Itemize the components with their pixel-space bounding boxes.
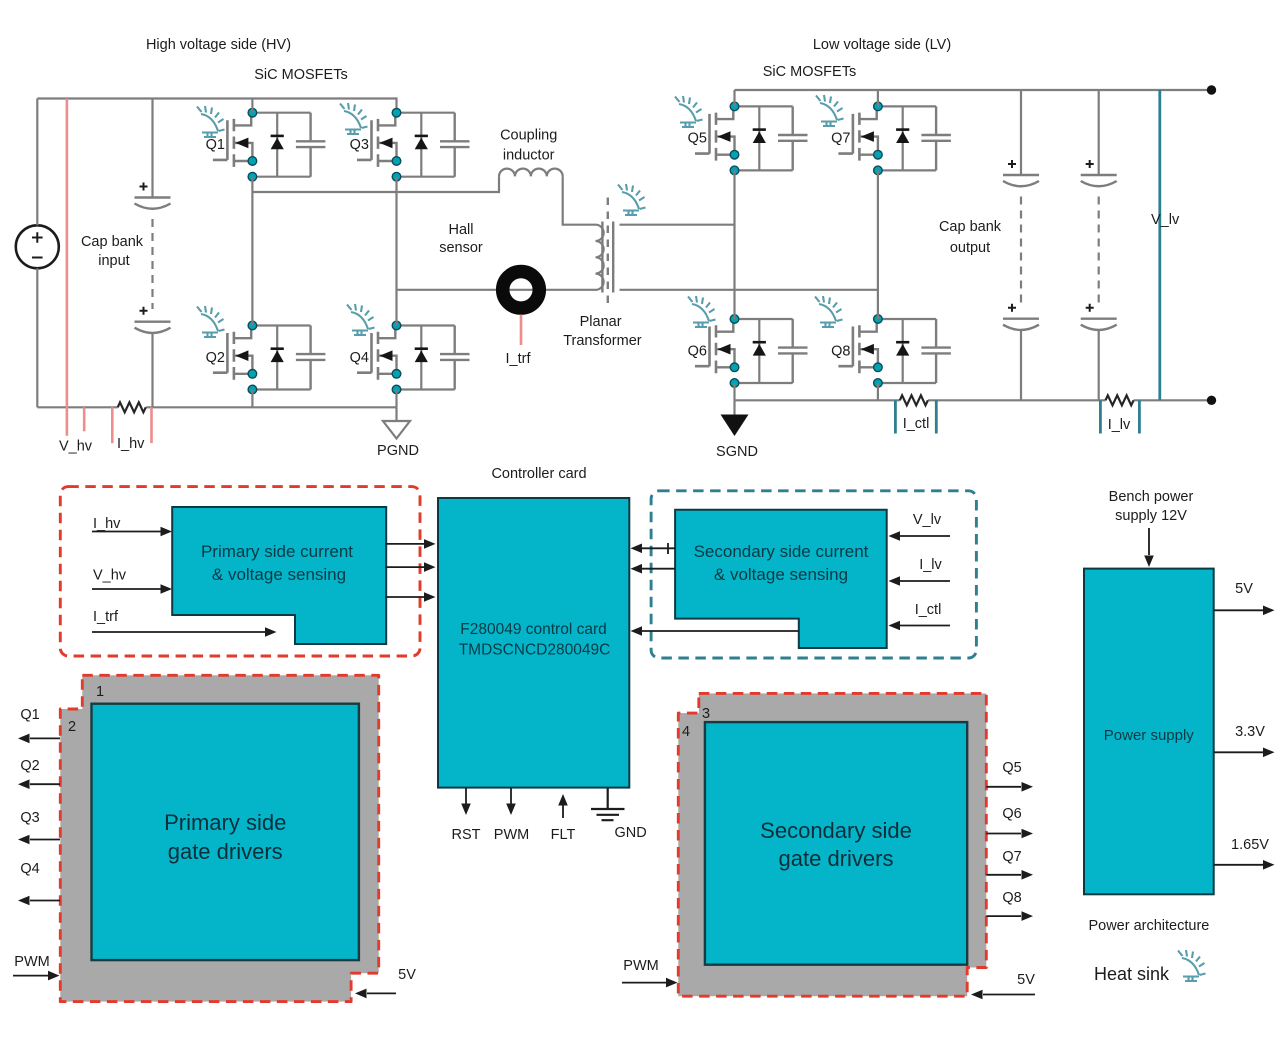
svg-text:Q6: Q6 <box>688 343 707 359</box>
svg-text:& voltage sensing: & voltage sensing <box>714 565 848 584</box>
svg-text:Power architecture: Power architecture <box>1088 918 1209 934</box>
block: F280049 controller card <box>438 498 629 788</box>
heat sink icon Q6 <box>688 296 716 327</box>
heat sink icon Q8 <box>815 296 843 327</box>
transistor Q8 <box>838 315 951 388</box>
svg-text:Q6: Q6 <box>1002 806 1021 822</box>
wire: Q5-Q6 leg <box>733 170 735 319</box>
transistor Q2 <box>213 321 326 394</box>
svg-text:sensor: sensor <box>439 240 483 256</box>
node: LV top rail end dot <box>1207 85 1216 94</box>
svg-text:PGND: PGND <box>377 443 419 459</box>
wire: Q8 source to rail <box>877 383 879 400</box>
svg-text:I_lv: I_lv <box>1108 417 1131 433</box>
svg-text:5V: 5V <box>1235 581 1253 597</box>
resistor I_lv shunt <box>1106 395 1134 405</box>
svg-text:V_lv: V_lv <box>913 512 942 528</box>
svg-text:& voltage sensing: & voltage sensing <box>212 565 346 584</box>
transistor Q6 <box>695 315 808 388</box>
wire: HV top rail <box>37 99 396 113</box>
svg-text:I_ctl: I_ctl <box>903 416 930 432</box>
svg-text:Q3: Q3 <box>20 810 39 826</box>
wire: phase B to transformer (through hall sensor) <box>397 289 596 291</box>
svg-text:FLT: FLT <box>551 827 576 843</box>
block: secondary side gate drivers <box>705 722 967 965</box>
wire: source to top rail <box>36 99 38 226</box>
wire: Q1-Q2 leg <box>251 177 253 326</box>
wire: transformer secondary top <box>620 224 735 226</box>
svg-text:I_trf: I_trf <box>506 351 532 367</box>
ground GND (controller) <box>591 788 625 820</box>
secondary sensing dashed border (teal) <box>651 491 976 658</box>
wire: Q2 source to rail <box>251 390 253 408</box>
ground SGND <box>733 400 735 415</box>
svg-text:Primary side current: Primary side current <box>201 542 353 561</box>
svg-text:Planar: Planar <box>580 314 622 330</box>
capacitor: cap bank output branch 1 top <box>1020 90 1022 175</box>
block: primary side current and voltage sensing <box>172 507 386 644</box>
svg-text:SGND: SGND <box>716 444 758 460</box>
capacitor: cap bank input top <box>151 99 153 198</box>
svg-text:Q1: Q1 <box>206 137 225 153</box>
svg-text:Cap bank: Cap bank <box>81 234 144 250</box>
wire: Q1 drain lead <box>251 99 253 113</box>
svg-text:gate drivers: gate drivers <box>779 846 894 871</box>
heat sink icon transformer <box>618 184 646 215</box>
svg-text:High voltage side (HV): High voltage side (HV) <box>146 37 291 53</box>
svg-text:output: output <box>950 240 990 256</box>
svg-text:PWM: PWM <box>623 958 658 974</box>
red dashed outline primary gate drivers <box>60 675 378 1001</box>
board 4 (secondary gate driver pcb front) <box>678 713 967 996</box>
svg-text:1: 1 <box>96 684 104 700</box>
transformer T1 primary winding <box>596 225 604 290</box>
heat sink icon Q3 <box>340 103 368 134</box>
transistor Q1 <box>213 108 326 181</box>
svg-text:SiC MOSFETs: SiC MOSFETs <box>763 64 856 80</box>
svg-text:Q2: Q2 <box>20 758 39 774</box>
board 1 (primary gate driver pcb back) <box>82 675 378 973</box>
pin FLT <box>562 805 564 818</box>
wire: inductor to transformer primary <box>563 176 596 224</box>
svg-text:Q3: Q3 <box>350 137 369 153</box>
svg-text:I_lv: I_lv <box>919 557 942 573</box>
wire: primary sensing to controller arrows <box>385 543 424 545</box>
svg-text:V_lv: V_lv <box>1151 212 1180 228</box>
svg-text:Q7: Q7 <box>1002 849 1021 865</box>
red dashed outline secondary gate drivers <box>678 693 986 996</box>
svg-text:PWM: PWM <box>494 827 529 843</box>
wire: phase A to coupling inductor <box>252 176 499 192</box>
svg-text:I_hv: I_hv <box>93 516 121 532</box>
pin RST <box>465 788 467 804</box>
wire: transformer secondary bottom <box>620 289 878 291</box>
svg-text:Transformer: Transformer <box>563 333 642 349</box>
capacitor: cap bank output branch 1 bottom <box>1003 304 1039 330</box>
svg-text:RST: RST <box>452 827 481 843</box>
svg-text:Q5: Q5 <box>688 131 707 147</box>
wire: LV bottom rail <box>735 399 1212 401</box>
svg-text:Q7: Q7 <box>831 131 850 147</box>
svg-text:PWM: PWM <box>14 954 49 970</box>
wire: secondary sensing to controller arrow 2 <box>642 568 675 570</box>
inductor: coupling inductor <box>499 169 563 177</box>
transistor Q3 <box>357 108 470 181</box>
svg-text:Hall: Hall <box>449 222 474 238</box>
svg-text:Bench power: Bench power <box>1109 489 1194 505</box>
wire: Q7-Q8 leg <box>877 170 879 319</box>
block: power supply <box>1084 569 1214 895</box>
transistor Q4 <box>357 321 470 394</box>
svg-text:inductor: inductor <box>503 148 555 164</box>
heat sink icon Q5 <box>675 96 703 127</box>
svg-text:4: 4 <box>682 724 690 740</box>
transistor Q5 <box>695 102 808 175</box>
node: I_hv sense lines (red) <box>112 407 151 443</box>
transistor Q7 <box>838 102 951 175</box>
svg-text:Controller card: Controller card <box>491 466 586 482</box>
svg-text:V_hv: V_hv <box>59 439 93 455</box>
svg-text:Low voltage side (LV): Low voltage side (LV) <box>813 37 951 53</box>
wire: Q3-Q4 leg <box>395 177 397 326</box>
svg-text:Q4: Q4 <box>20 861 39 877</box>
node: LV bottom rail end dot <box>1207 396 1216 405</box>
svg-text:Primary side: Primary side <box>164 810 286 835</box>
svg-text:Heat sink: Heat sink <box>1094 964 1170 984</box>
node: V_lv sense line (teal) <box>1158 90 1161 400</box>
ground PGND <box>395 407 397 421</box>
svg-text:5V: 5V <box>398 967 416 983</box>
wire: Q4 source to rail <box>395 390 397 408</box>
svg-text:3: 3 <box>702 706 710 722</box>
svg-text:Coupling: Coupling <box>500 128 557 144</box>
svg-text:Cap bank: Cap bank <box>939 219 1002 235</box>
heat sink icon Q1 <box>197 106 225 137</box>
svg-text:Q5: Q5 <box>1002 760 1021 776</box>
svg-text:I_hv: I_hv <box>117 436 145 452</box>
svg-text:Q1: Q1 <box>20 707 39 723</box>
pin PWM <box>510 788 512 804</box>
svg-text:GND: GND <box>615 825 647 841</box>
svg-text:2: 2 <box>68 719 76 735</box>
capacitor: cap bank input bottom <box>135 307 171 333</box>
wire: source to bottom rail <box>36 268 38 407</box>
wire: dashed between input caps <box>151 219 153 309</box>
svg-text:input: input <box>98 253 129 269</box>
svg-text:I_ctl: I_ctl <box>915 602 942 618</box>
heat sink icon Q4 <box>347 304 375 335</box>
wire: I_ctl to controller arrow <box>642 630 799 632</box>
svg-text:Q4: Q4 <box>350 350 369 366</box>
heat sink icon legend <box>1178 950 1206 981</box>
block: secondary side current and voltage sensing <box>675 510 887 648</box>
svg-text:3.3V: 3.3V <box>1235 724 1265 740</box>
block: primary side gate drivers <box>92 704 359 960</box>
wire: Q6 source to rail <box>733 383 735 400</box>
svg-text:Q2: Q2 <box>206 350 225 366</box>
primary sensing dashed border (red) <box>60 487 420 656</box>
capacitor: cap bank output branch 2 bottom <box>1081 304 1117 330</box>
board 2 (primary gate driver pcb front) <box>60 709 351 1002</box>
svg-text:TMDSCNCD280049C: TMDSCNCD280049C <box>459 642 611 659</box>
wire: secondary sensing to controller arrow 1 <box>642 543 675 554</box>
svg-text:5V: 5V <box>1017 972 1035 988</box>
resistor I_ctl shunt <box>900 395 928 405</box>
svg-text:Q8: Q8 <box>831 343 850 359</box>
capacitor: cap bank output branch 2 top <box>1098 90 1100 175</box>
node: I_lv probes (teal) <box>1100 400 1139 433</box>
svg-text:F280049 control card: F280049 control card <box>460 621 606 638</box>
wire: HV bottom rail <box>37 406 396 408</box>
svg-text:1.65V: 1.65V <box>1231 837 1269 853</box>
wire: bench supply to power supply box <box>1148 528 1150 555</box>
transformer T1 core <box>602 222 613 293</box>
resistor: HV shunt <box>118 402 146 412</box>
svg-text:supply 12V: supply 12V <box>1115 508 1187 524</box>
svg-text:Power supply: Power supply <box>1104 727 1195 744</box>
wire: LV top rail <box>735 89 1212 91</box>
node: V_hv sense lines (red) <box>67 99 84 436</box>
svg-text:Q8: Q8 <box>1002 890 1021 906</box>
svg-text:I_trf: I_trf <box>93 609 119 625</box>
board 3 (secondary gate driver pcb back) <box>699 693 987 967</box>
heat sink icon Q2 <box>197 306 225 337</box>
svg-text:gate drivers: gate drivers <box>168 839 283 864</box>
svg-text:V_hv: V_hv <box>93 568 127 584</box>
hall sensor torus <box>503 272 540 309</box>
node: I_ctl probes (teal) <box>895 400 936 433</box>
node: I_trf sense line (red) <box>520 315 523 346</box>
voltage source V1 <box>16 225 59 268</box>
heat sink icon Q7 <box>816 95 844 126</box>
svg-text:SiC MOSFETs: SiC MOSFETs <box>254 67 347 83</box>
svg-text:Secondary side current: Secondary side current <box>694 542 869 561</box>
svg-text:Secondary side: Secondary side <box>760 818 912 843</box>
